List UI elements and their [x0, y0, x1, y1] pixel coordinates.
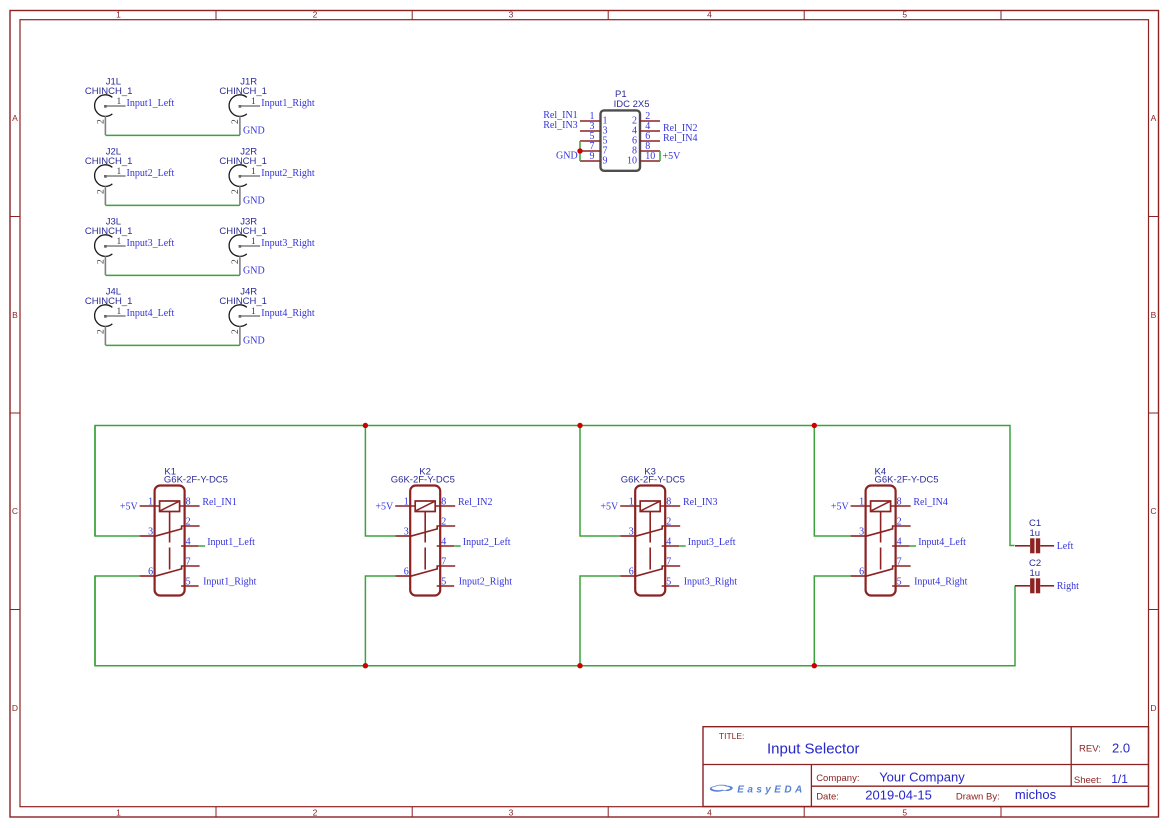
K3 pin 2 line [662, 526, 680, 530]
svg-text:10: 10 [627, 156, 637, 167]
wire GND pins 5-7-9 [579, 141, 581, 161]
svg-text:9: 9 [590, 151, 595, 162]
svg-text:2: 2 [313, 10, 318, 20]
wire bottom bus to K1 pin 6 [95, 576, 140, 666]
svg-text:CHINCH_1: CHINCH_1 [85, 86, 133, 97]
K4 switch arm pole 1 [866, 529, 893, 536]
svg-text:2: 2 [313, 807, 318, 817]
K2 pin 4 line [437, 545, 455, 547]
J1R symbol circle [229, 95, 247, 117]
K4 pin 6 line [851, 575, 866, 577]
K2 pin 5 line [437, 585, 455, 587]
J1L pin 2 line [104, 116, 106, 135]
title block divider left of rev cell [1070, 727, 1072, 787]
title block divider below company row [811, 785, 1148, 787]
wire +5V pins 8-10 [659, 151, 661, 161]
svg-text:2.0: 2.0 [1112, 740, 1130, 755]
wire top bus to K3 pin 3 [580, 426, 620, 537]
K2 actuator line [424, 512, 426, 570]
K1 coil [160, 501, 180, 512]
svg-text:C: C [12, 506, 18, 516]
relay K3 (G6K-2F-Y-DC5) [600, 466, 737, 595]
K2 pin 7 line [437, 566, 455, 570]
svg-text:2: 2 [97, 189, 107, 194]
svg-text:9: 9 [603, 156, 608, 167]
J4L pin 1 line [104, 315, 125, 317]
K1 switch arm pole 1 [155, 529, 182, 536]
svg-text:Input3_Right: Input3_Right [261, 238, 315, 249]
svg-text:+5V: +5V [120, 501, 139, 512]
svg-text:Input2_Right: Input2_Right [261, 168, 315, 179]
svg-text:1: 1 [117, 307, 122, 317]
svg-text:3: 3 [629, 527, 634, 538]
svg-text:G6K-2F-Y-DC5: G6K-2F-Y-DC5 [164, 475, 228, 486]
svg-text:3: 3 [509, 10, 514, 20]
svg-text:Date:: Date: [816, 791, 839, 802]
svg-text:1: 1 [116, 10, 121, 20]
svg-text:GND: GND [243, 196, 265, 207]
K1 pin 5 line [181, 585, 199, 587]
J2L symbol circle [95, 165, 113, 187]
svg-text:Rel_IN4: Rel_IN4 [913, 497, 947, 508]
svg-text:2: 2 [666, 516, 671, 527]
P1 pin 5 line [580, 140, 601, 142]
K3 switch arm pole 2 [635, 569, 662, 576]
svg-text:3: 3 [404, 527, 409, 538]
relay K2 (G6K-2F-Y-DC5) [375, 466, 512, 595]
P1 pin 6 line [640, 140, 660, 142]
svg-text:+5V: +5V [375, 501, 394, 512]
K1 pin 4 line [181, 545, 199, 547]
svg-text:4: 4 [186, 536, 191, 547]
frame row ticks [10, 217, 1159, 610]
svg-text:7: 7 [186, 556, 191, 567]
svg-text:Input4_Right: Input4_Right [914, 577, 968, 588]
J2R symbol circle [229, 165, 247, 187]
title block [703, 727, 1149, 807]
frame row labels [12, 113, 1157, 713]
P1 pin 4 line [640, 130, 660, 132]
svg-text:1/1: 1/1 [1111, 772, 1128, 786]
K1 pin 2 line [182, 526, 200, 530]
svg-text:2: 2 [897, 516, 902, 527]
J1R pin 2 line [239, 116, 241, 135]
svg-text:GND: GND [556, 150, 578, 161]
K3 pin 6 line [620, 575, 635, 577]
svg-text:6: 6 [859, 567, 864, 578]
junction top bus [363, 423, 368, 428]
K4 switch arm pole 2 [866, 569, 893, 576]
svg-text:B: B [12, 310, 18, 320]
K4 pin 2 line [893, 526, 911, 530]
P1 body [601, 110, 641, 170]
svg-text:5: 5 [902, 807, 907, 817]
K1 pin 1 line [140, 505, 160, 507]
svg-text:1: 1 [116, 807, 121, 817]
svg-text:1u: 1u [1030, 568, 1041, 579]
svg-text:1: 1 [251, 97, 256, 107]
svg-text:1: 1 [859, 497, 864, 508]
K2 switch arm pole 1 [410, 529, 437, 536]
svg-text:G6K-2F-Y-DC5: G6K-2F-Y-DC5 [391, 475, 455, 486]
P1 pin 7 line [580, 150, 601, 152]
J2L pin 2 line [104, 186, 106, 205]
junction bottom bus [363, 663, 368, 668]
J1L pin 1 line [104, 105, 125, 107]
K3 pin 4 line [662, 545, 680, 547]
svg-text:CHINCH_1: CHINCH_1 [85, 296, 133, 307]
connector J4R (CINCH_1) [219, 286, 314, 345]
svg-text:8: 8 [666, 497, 671, 508]
svg-text:5: 5 [902, 10, 907, 20]
K4 pin 8 line [891, 505, 911, 507]
P1 pin 8 line [640, 150, 660, 152]
P1 pin 9 line [580, 160, 601, 162]
wire stub pin 4 K2 [454, 545, 461, 547]
wire top bus to K1 pin 3 [95, 426, 140, 537]
wire GND J3L to J3R [105, 274, 240, 276]
wire top bus to K2 pin 3 [365, 426, 395, 537]
svg-text:1: 1 [117, 97, 122, 107]
J3L pin 2 line [104, 256, 106, 275]
K4 pin 1 line [851, 505, 871, 507]
C2 pin 2 line [1040, 585, 1054, 587]
K3 body [635, 486, 665, 596]
J3R centre dot [239, 245, 242, 248]
svg-text:1: 1 [404, 497, 409, 508]
J4L centre dot [104, 315, 107, 318]
wire stub pin 4 K4 [910, 545, 917, 547]
svg-text:4: 4 [707, 10, 712, 20]
svg-text:CHINCH_1: CHINCH_1 [219, 86, 267, 97]
title block outline [703, 727, 1149, 807]
wire bottom bus to K2 pin 6 [365, 576, 395, 666]
svg-text:EasyEDA: EasyEDA [737, 784, 805, 795]
title block divider right of logo cell [810, 765, 812, 807]
wire bottom bus to K3 pin 6 [580, 576, 620, 666]
svg-text:8: 8 [897, 497, 902, 508]
svg-text:Input4_Right: Input4_Right [261, 308, 315, 319]
svg-text:Rel_IN3: Rel_IN3 [543, 120, 577, 131]
svg-text:1: 1 [117, 167, 122, 177]
J1L symbol circle [95, 95, 113, 117]
svg-text:Input2_Left: Input2_Left [463, 537, 511, 548]
J1L centre dot [104, 105, 107, 108]
svg-text:6: 6 [148, 567, 153, 578]
connector J2L (CINCH_1) [85, 146, 175, 205]
K4 pin 5 line [892, 585, 910, 587]
svg-text:4: 4 [666, 536, 671, 547]
svg-text:Input1_Right: Input1_Right [203, 577, 257, 588]
svg-text:10: 10 [645, 151, 655, 162]
wire GND J4L to J4R [105, 344, 240, 346]
K1 pin 6 line [140, 575, 155, 577]
K1 pin 7 line [182, 566, 200, 570]
svg-text:C: C [1150, 506, 1156, 516]
svg-text:Left: Left [1057, 541, 1074, 552]
K2 pin 8 line [435, 505, 455, 507]
svg-text:Your Company: Your Company [879, 770, 965, 785]
C1 pin 2 line [1040, 545, 1054, 547]
svg-text:7: 7 [897, 556, 902, 567]
K3 pin 5 line [662, 585, 680, 587]
svg-text:CHINCH_1: CHINCH_1 [219, 156, 267, 167]
junction top bus [812, 423, 817, 428]
wire top bus to K4 pin 3 [814, 426, 850, 537]
connector J2R (CINCH_1) [219, 146, 314, 205]
wire left audio bus (top) [95, 426, 1015, 546]
wire bottom bus to K4 pin 6 [814, 576, 850, 666]
svg-text:Input1_Right: Input1_Right [261, 98, 315, 109]
svg-text:2019-04-15: 2019-04-15 [865, 788, 932, 803]
K3 switch arm pole 1 [635, 529, 662, 536]
junction bottom bus [577, 663, 582, 668]
K3 pin 1 line [620, 505, 640, 507]
svg-text:+5V: +5V [663, 151, 682, 162]
K4 pin 7 line [893, 566, 911, 570]
connector J3R (CINCH_1) [219, 216, 314, 275]
K1 switch arm pole 2 [155, 569, 182, 576]
frame column ticks [216, 11, 1001, 818]
svg-text:CHINCH_1: CHINCH_1 [219, 226, 267, 237]
svg-text:+5V: +5V [600, 501, 619, 512]
svg-text:Input2_Left: Input2_Left [127, 168, 175, 179]
svg-text:4: 4 [441, 536, 446, 547]
wire right audio bus (bottom) [95, 576, 1015, 666]
svg-text:8: 8 [186, 497, 191, 508]
J3R symbol circle [229, 235, 247, 257]
junction at P1 pin 7 [577, 148, 582, 153]
K2 pin 2 line [437, 526, 455, 530]
svg-text:G6K-2F-Y-DC5: G6K-2F-Y-DC5 [621, 475, 685, 486]
connector J3L (CINCH_1) [85, 216, 175, 275]
svg-text:2: 2 [97, 119, 107, 124]
svg-text:A: A [1151, 113, 1157, 123]
svg-text:7: 7 [666, 556, 671, 567]
svg-text:2: 2 [97, 329, 107, 334]
wire stub pin 4 K1 [199, 545, 206, 547]
P1 pin 10 line [640, 160, 660, 162]
K2 pin 3 line [395, 535, 410, 537]
svg-text:2: 2 [186, 516, 191, 527]
J4R pin 2 line [239, 326, 241, 345]
J1R centre dot [239, 105, 242, 108]
svg-text:5: 5 [441, 576, 446, 587]
J4L pin 2 line [104, 326, 106, 345]
J4R centre dot [239, 315, 242, 318]
J3R pin 1 line [239, 245, 260, 247]
svg-text:5: 5 [186, 576, 191, 587]
svg-text:Input1_Left: Input1_Left [127, 98, 175, 109]
svg-text:6: 6 [629, 567, 634, 578]
svg-text:michos: michos [1015, 787, 1057, 802]
svg-text:1: 1 [117, 237, 122, 247]
K4 actuator line [880, 512, 882, 570]
J4R symbol circle [229, 305, 247, 327]
svg-text:D: D [12, 703, 18, 713]
J3L centre dot [104, 245, 107, 248]
svg-text:6: 6 [404, 567, 409, 578]
svg-text:Rel_IN3: Rel_IN3 [683, 497, 717, 508]
P1 pin 2 line [640, 120, 660, 122]
svg-text:Rel_IN4: Rel_IN4 [663, 133, 697, 144]
K2 pin 6 line [395, 575, 410, 577]
K3 coil [640, 501, 660, 512]
junction bottom bus [812, 663, 817, 668]
capacitor C2 1u [1015, 558, 1079, 593]
svg-text:D: D [1150, 703, 1156, 713]
wire stub pin 4 K3 [679, 545, 686, 547]
svg-text:5: 5 [897, 576, 902, 587]
K1 pin 8 line [180, 505, 200, 507]
relay K1 (G6K-2F-Y-DC5) [120, 466, 257, 595]
svg-text:3: 3 [859, 527, 864, 538]
K1 body [155, 486, 185, 596]
junction top bus [577, 423, 582, 428]
P1 pin 3 line [580, 130, 601, 132]
J2R pin 1 line [239, 175, 260, 177]
C2 pin 1 line [1015, 585, 1030, 587]
K4 pin 3 line [851, 535, 866, 537]
svg-text:4: 4 [897, 536, 902, 547]
J3L pin 1 line [104, 245, 125, 247]
svg-text:GND: GND [243, 266, 265, 277]
svg-text:2: 2 [441, 516, 446, 527]
svg-text:Sheet:: Sheet: [1074, 775, 1101, 786]
K2 body [410, 486, 440, 596]
J2R pin 2 line [239, 186, 241, 205]
svg-text:3: 3 [509, 807, 514, 817]
J4L symbol circle [95, 305, 113, 327]
J4R pin 1 line [239, 315, 260, 317]
J2L centre dot [104, 175, 107, 178]
P1 pin 1 line [580, 120, 601, 122]
capacitor C1 1u [1015, 518, 1074, 553]
svg-text:7: 7 [441, 556, 446, 567]
svg-text:Input2_Right: Input2_Right [459, 577, 513, 588]
K2 pin 1 line [395, 505, 415, 507]
C1 pin 1 line [1015, 545, 1030, 547]
svg-text:1: 1 [251, 307, 256, 317]
svg-text:Input4_Left: Input4_Left [127, 308, 175, 319]
K3 pin 8 line [660, 505, 680, 507]
C2 plates [1030, 578, 1034, 593]
wire GND J2L to J2R [105, 204, 240, 206]
svg-text:2: 2 [231, 259, 241, 264]
svg-text:Rel_IN1: Rel_IN1 [202, 497, 236, 508]
svg-text:1: 1 [629, 497, 634, 508]
J2L pin 1 line [104, 175, 125, 177]
title block divider below title row [703, 764, 1149, 766]
svg-text:1: 1 [148, 497, 153, 508]
svg-text:Input3_Left: Input3_Left [127, 238, 175, 249]
svg-text:GND: GND [243, 336, 265, 347]
J3R pin 2 line [239, 256, 241, 275]
svg-text:Rel_IN2: Rel_IN2 [458, 497, 492, 508]
svg-text:3: 3 [148, 527, 153, 538]
connector J1L (CINCH_1) [85, 76, 175, 135]
svg-text:1u: 1u [1030, 528, 1041, 539]
svg-text:Right: Right [1057, 581, 1079, 592]
svg-text:IDC 2X5: IDC 2X5 [614, 99, 650, 110]
svg-text:2: 2 [231, 189, 241, 194]
svg-text:GND: GND [243, 126, 265, 137]
svg-text:Company:: Company: [816, 773, 859, 784]
svg-text:G6K-2F-Y-DC5: G6K-2F-Y-DC5 [875, 475, 939, 486]
K2 coil [415, 501, 435, 512]
K4 pin 4 line [892, 545, 910, 547]
svg-text:A: A [12, 113, 18, 123]
svg-text:REV:: REV: [1079, 744, 1101, 755]
svg-text:Input1_Left: Input1_Left [207, 537, 255, 548]
frame column labels [116, 10, 907, 818]
J3L symbol circle [95, 235, 113, 257]
K3 pin 7 line [662, 566, 680, 570]
K3 pin 3 line [620, 535, 635, 537]
EasyEDA logo [710, 784, 806, 795]
svg-text:4: 4 [707, 807, 712, 817]
svg-text:2: 2 [97, 259, 107, 264]
svg-text:8: 8 [441, 497, 446, 508]
K4 body [866, 486, 896, 596]
K1 actuator line [169, 512, 171, 570]
svg-text:Input Selector: Input Selector [767, 740, 860, 757]
svg-text:Input3_Right: Input3_Right [684, 577, 738, 588]
svg-text:2: 2 [231, 329, 241, 334]
svg-text:Input4_Left: Input4_Left [918, 537, 966, 548]
svg-text:5: 5 [666, 576, 671, 587]
C1 plates [1030, 538, 1034, 553]
J1R pin 1 line [239, 105, 260, 107]
wire GND J1L to J1R [105, 134, 240, 136]
svg-text:TITLE:: TITLE: [719, 731, 745, 741]
connector P1 IDC 2X5 [580, 89, 660, 171]
svg-text:B: B [1151, 310, 1157, 320]
svg-text:CHINCH_1: CHINCH_1 [219, 296, 267, 307]
K2 switch arm pole 2 [410, 569, 437, 576]
K4 coil [871, 501, 891, 512]
connector J1R (CINCH_1) [219, 76, 314, 135]
svg-text:CHINCH_1: CHINCH_1 [85, 226, 133, 237]
svg-text:2: 2 [231, 119, 241, 124]
relay K4 (G6K-2F-Y-DC5) [831, 466, 968, 595]
connector J4L (CINCH_1) [85, 286, 175, 345]
svg-text:1: 1 [251, 237, 256, 247]
svg-text:Input3_Left: Input3_Left [688, 537, 736, 548]
K3 actuator line [649, 512, 651, 570]
K1 pin 3 line [140, 535, 155, 537]
svg-text:Drawn By:: Drawn By: [956, 791, 1000, 802]
svg-text:1: 1 [251, 167, 256, 177]
svg-text:+5V: +5V [831, 501, 850, 512]
svg-text:CHINCH_1: CHINCH_1 [85, 156, 133, 167]
J2R centre dot [239, 175, 242, 178]
